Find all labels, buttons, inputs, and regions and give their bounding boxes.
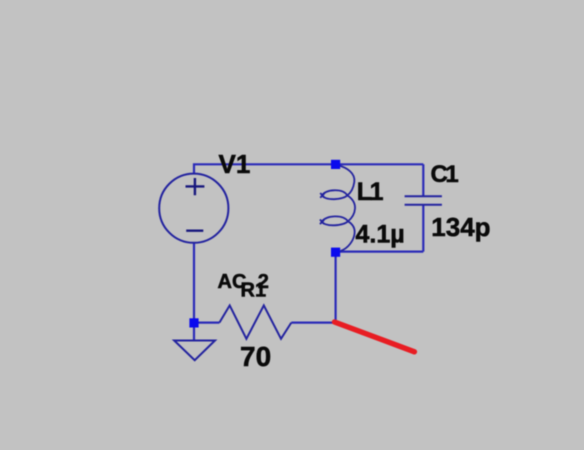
svg-text:L1: L1 bbox=[357, 178, 384, 206]
node junction top of L1 bbox=[331, 160, 340, 169]
wire resistor right bbox=[291, 322, 336, 324]
V1 minus sign bbox=[186, 229, 203, 231]
voltage source V1 circle bbox=[159, 174, 228, 243]
node junction bottom of L1 bbox=[331, 248, 340, 257]
wire resistor left bbox=[193, 322, 219, 324]
svg-text:R1: R1 bbox=[241, 280, 267, 302]
ground bbox=[174, 341, 215, 361]
lens1 tip cross bbox=[320, 193, 324, 198]
wire inductor bottom vertical bbox=[335, 252, 337, 323]
wire V1 bottom to ground bbox=[193, 243, 195, 341]
svg-text:134p: 134p bbox=[431, 212, 490, 242]
svg-text:V1: V1 bbox=[219, 149, 251, 179]
capacitor C1 plates bbox=[405, 196, 442, 204]
svg-text:C1: C1 bbox=[431, 161, 459, 188]
wire bottom from capacitor to inductor bbox=[336, 251, 424, 253]
wire top from V1 to capacitor bbox=[194, 164, 423, 174]
capacitor C1 vertical stubs bbox=[422, 164, 424, 251]
inductor L1 coil bbox=[320, 165, 355, 251]
red probe line bbox=[335, 322, 415, 352]
svg-text:4.1µ: 4.1µ bbox=[356, 220, 405, 248]
svg-text:70: 70 bbox=[240, 341, 271, 372]
resistor R1 zigzag bbox=[219, 305, 291, 338]
lens2 tip cross bbox=[320, 220, 324, 225]
V1 plus sign bbox=[186, 178, 205, 195]
node junction at resistor/ground bbox=[189, 318, 198, 327]
